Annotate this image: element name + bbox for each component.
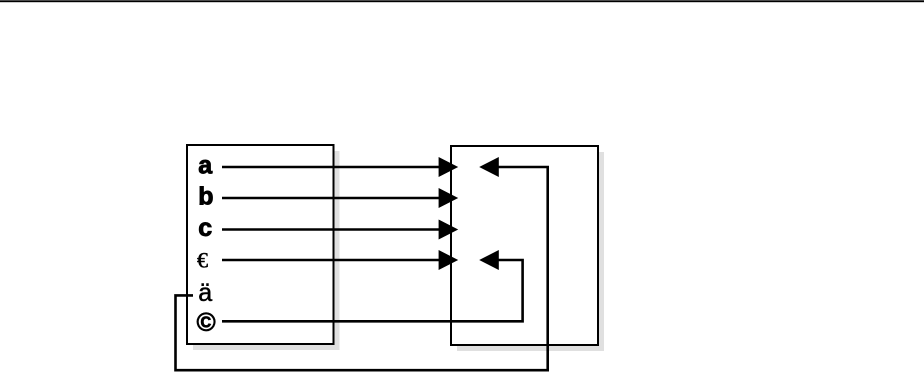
arrow b: line xyxy=(222,197,439,200)
arrow c: line xyxy=(222,228,439,231)
arrow a: line xyxy=(222,166,439,169)
left box shadow xyxy=(193,151,340,350)
arrow b: head xyxy=(439,188,459,208)
loop copyright: head xyxy=(479,250,499,270)
svg-text:€: € xyxy=(197,248,208,273)
svg-text:©: © xyxy=(197,307,216,337)
svg-text:b: b xyxy=(198,183,213,211)
arrow euro: head xyxy=(439,250,459,270)
svg-text:a: a xyxy=(198,152,213,180)
right box shadow xyxy=(457,152,604,351)
svg-text:ä: ä xyxy=(198,279,212,307)
arrow a: head xyxy=(439,157,459,177)
left box xyxy=(187,145,334,344)
loop a-umlaut: head xyxy=(479,157,499,177)
loop copyright to row euro: polyline xyxy=(222,260,523,321)
right box xyxy=(451,146,598,345)
top horizontal rule xyxy=(0,0,924,2)
loop a-umlaut to row a: polyline xyxy=(176,167,548,370)
arrow euro: line xyxy=(222,259,439,262)
svg-text:c: c xyxy=(198,214,212,242)
arrow c: head xyxy=(439,220,459,240)
